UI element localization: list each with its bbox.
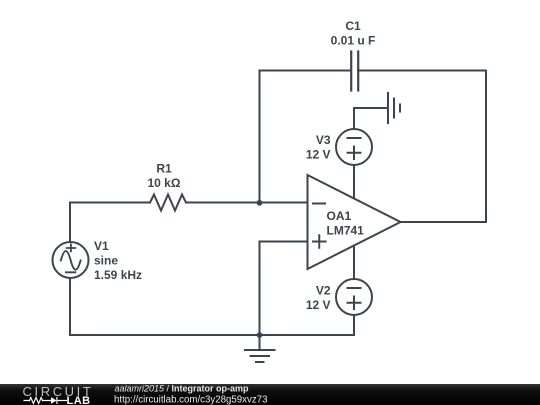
- wire resistor R1 to inverting input: [186, 202, 308, 204]
- wire non-inverting input to ground column: [260, 242, 308, 336]
- node junction dot at ground rail: [257, 332, 263, 338]
- svg-text:sine: sine: [94, 254, 118, 268]
- V1 sine symbol: [61, 251, 81, 270]
- capacitor C1: [351, 52, 358, 91]
- wire V3 top to right ground: [354, 108, 387, 129]
- svg-text:V1: V1: [94, 239, 109, 253]
- svg-text:LAB: LAB: [67, 395, 91, 405]
- wire left vertical from top wire to inverting input node: [259, 71, 261, 203]
- svg-text:LM741: LM741: [327, 224, 365, 238]
- svg-text:12 V: 12 V: [306, 298, 331, 312]
- svg-text:C1: C1: [345, 19, 361, 33]
- voltage source V2 circle: [336, 279, 372, 315]
- wire top from node A to C1 left plate: [260, 70, 352, 72]
- resistor R1: [150, 195, 186, 211]
- svg-text:12 V: 12 V: [306, 148, 331, 162]
- op-amp OA1 minus input marker: [313, 203, 325, 205]
- wire V2 bottom to ground rail: [353, 315, 355, 335]
- wire V1 bottom to ground rail: [70, 278, 354, 335]
- svg-text:R1: R1: [156, 162, 172, 176]
- svg-text:http://circuitlab.com/c3y28g59: http://circuitlab.com/c3y28g59xvz73: [114, 395, 267, 405]
- wire C1 right plate to right vertical: [358, 70, 486, 72]
- footer logo resistor-diode glyph: [24, 397, 68, 404]
- V1 plus sign: [67, 244, 76, 251]
- svg-text:aalamri2015 / Integrator op-am: aalamri2015 / Integrator op-amp: [115, 384, 250, 394]
- V1 minus sign: [66, 271, 75, 273]
- wire op-amp bottom supply pin to V2 top: [353, 246, 355, 279]
- svg-text:V3: V3: [316, 133, 331, 147]
- ground symbol bottom: [259, 335, 261, 350]
- wire right vertical feedback: [485, 71, 487, 223]
- svg-text:OA1: OA1: [327, 209, 352, 223]
- wire V1 top to resistor R1: [70, 203, 150, 243]
- svg-text:10 kΩ: 10 kΩ: [148, 176, 181, 190]
- footer bar: [0, 384, 540, 405]
- V3 plus sign: [348, 147, 361, 160]
- svg-text:0.01 u F: 0.01 u F: [331, 34, 376, 48]
- node junction dot at inverting input: [257, 200, 263, 206]
- wire output op-amp to right vertical: [401, 221, 487, 223]
- V2 plus sign: [348, 297, 361, 310]
- voltage source V1 circle: [53, 242, 89, 278]
- op-amp OA1 plus input marker: [313, 235, 326, 247]
- svg-text:1.59 kHz: 1.59 kHz: [94, 268, 142, 282]
- V2 minus sign: [348, 287, 361, 289]
- V3 minus sign: [348, 137, 361, 139]
- ground symbol right (rotated): [388, 93, 400, 123]
- wire V3 bottom to op-amp top supply pin: [353, 165, 355, 198]
- voltage source V3 circle: [336, 129, 372, 165]
- op-amp OA1 triangle: [308, 175, 401, 269]
- svg-text:V2: V2: [316, 284, 331, 298]
